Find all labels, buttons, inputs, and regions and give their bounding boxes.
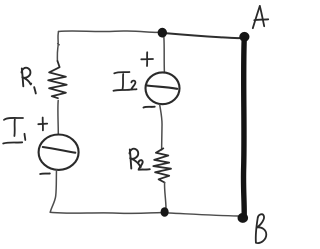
- wire mid vertical upper: [163, 37, 166, 72]
- wire R1 to I1: [57, 101, 59, 135]
- current source I1: [39, 135, 79, 170]
- thick bar node A to node B: [241, 39, 247, 215]
- label R1: [22, 68, 36, 94]
- junction dot top-mid: [158, 28, 167, 38]
- junction dot bottom-mid: [161, 207, 169, 217]
- resistor R1: [48, 61, 66, 98]
- label node B: [256, 214, 267, 243]
- label minus I2: [144, 106, 155, 109]
- resistor R2: [153, 148, 171, 182]
- label node A: [253, 6, 268, 28]
- label I2: [114, 72, 137, 91]
- node B dot: [238, 213, 249, 223]
- wire bottom-right horizontal: [169, 213, 238, 216]
- wire I1 to bottom-left corner: [50, 170, 56, 212]
- wire bottom-left horizontal: [50, 212, 160, 213]
- node A dot: [239, 32, 249, 42]
- label minus I1: [40, 173, 50, 176]
- label plus I1: [38, 118, 47, 131]
- label I1: [3, 118, 25, 144]
- wire R2 to bottom dot: [165, 183, 166, 208]
- wire left vertical upper: [57, 32, 58, 62]
- label plus I2: [141, 52, 153, 66]
- wire top-right horizontal: [167, 33, 241, 38]
- wire I2 to R2: [160, 105, 162, 150]
- wire wobble tick left vertical: [58, 44, 60, 45]
- label R2: [130, 149, 150, 170]
- wire top-left horizontal: [59, 31, 159, 33]
- current source I2: [146, 72, 180, 104]
